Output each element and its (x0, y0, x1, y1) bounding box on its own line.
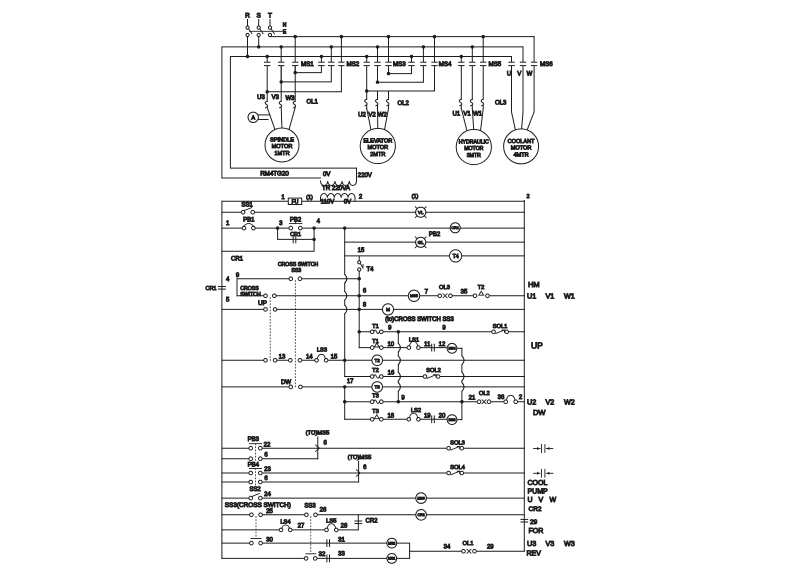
svg-text:10: 10 (387, 342, 394, 348)
svg-text:7: 7 (425, 289, 429, 295)
svg-text:T4: T4 (367, 267, 375, 273)
wire MS6 phase b drop (522, 47, 524, 62)
svg-text:OL3: OL3 (439, 285, 450, 291)
svg-text:2: 2 (527, 194, 530, 200)
svg-text:33: 33 (338, 552, 345, 558)
node 8 on 359 (358, 308, 361, 311)
node 4 lower (312, 238, 315, 241)
svg-text:28: 28 (341, 524, 348, 530)
wire row 25 (222, 514, 524, 516)
wire T4 stub (358, 256, 360, 261)
svg-text:19: 19 (424, 414, 431, 420)
svg-text:(TO)MS5: (TO)MS5 (306, 431, 330, 437)
svg-text:SOL2: SOL2 (426, 368, 441, 374)
svg-text:SS3: SS3 (304, 503, 316, 509)
wire right rail (523, 201, 525, 552)
pushbutton PB3 lower (249, 457, 262, 461)
svg-text:W2: W2 (378, 113, 388, 119)
svg-text:MS2: MS2 (388, 541, 395, 545)
svg-text:RM4TG20: RM4TG20 (260, 171, 289, 178)
wire phase lead-in (247, 20, 249, 26)
svg-text:ELEVATOR: ELEVATOR (363, 139, 392, 145)
node 9 on 359 (358, 277, 361, 280)
node MS2 c on L1 (340, 35, 343, 38)
node MS1 c on L1 (294, 35, 297, 38)
svg-text:R: R (245, 13, 250, 20)
svg-text:COOLANT: COOLANT (508, 139, 536, 145)
switch SS2 (249, 494, 262, 500)
overload OL2 element (365, 91, 371, 130)
linkage PB3 (255, 444, 257, 462)
wire MS coils join (397, 543, 410, 558)
svg-text:21: 21 (469, 396, 476, 402)
motor 1MTR spindle (265, 128, 299, 162)
svg-text:REV: REV (527, 550, 542, 557)
svg-text:PB2: PB2 (429, 232, 441, 238)
svg-text:1MTR: 1MTR (274, 151, 289, 157)
svg-text:SWITCH: SWITCH (240, 292, 261, 298)
switch 14 pair (289, 359, 302, 363)
timer coil T4 (450, 250, 462, 262)
svg-text:6: 6 (264, 476, 268, 482)
contactor MS6 contact a (509, 62, 514, 65)
contactor coil MS2 (387, 538, 397, 548)
wire coolant lead (512, 67, 516, 131)
svg-text:SPINDLE: SPINDLE (270, 138, 294, 144)
contactor coil MS3 (447, 415, 457, 425)
contactor MS3 contact b (375, 62, 380, 65)
wire row1 (222, 211, 524, 213)
svg-text:PB3: PB3 (248, 437, 260, 443)
timer coil T2 (372, 355, 383, 366)
wire S drop to L2 (258, 37, 260, 47)
wire GL row (345, 241, 525, 243)
node 21 bus (460, 400, 463, 403)
wire MS1 phase a drop (266, 57, 268, 62)
wire TO MS5 stub upper (317, 437, 319, 459)
svg-text:CR1: CR1 (205, 286, 216, 292)
switch mechanical link (250, 30, 285, 32)
svg-text:T3: T3 (372, 409, 379, 415)
contact 33 (327, 555, 330, 562)
contactor MS3 contact c (386, 62, 391, 65)
junction kink lower (356, 470, 360, 476)
cross switch SS3 contact 26 (305, 513, 318, 517)
node MS5 c on L1 (482, 35, 485, 38)
svg-text:PUMP: PUMP (528, 489, 549, 496)
contactor MS3 contact a (364, 62, 369, 65)
svg-text:CR1: CR1 (231, 256, 244, 262)
pilot light GL (415, 237, 426, 248)
overload OL2 element (375, 91, 377, 130)
svg-text:GL: GL (418, 240, 425, 245)
svg-text:MS1: MS1 (301, 61, 314, 68)
node 9 bus top (397, 330, 400, 333)
svg-text:V1: V1 (546, 292, 555, 301)
node spindle link3 (266, 90, 269, 93)
contactor MS1 contact c (293, 62, 298, 65)
svg-text:29: 29 (487, 545, 494, 551)
svg-text:6: 6 (324, 440, 328, 446)
wire bus L1 (270, 36, 534, 38)
node 4 (312, 226, 315, 229)
solenoid contact SOL3 (447, 446, 464, 450)
wire row 6c (222, 481, 359, 483)
svg-text:W1: W1 (473, 112, 483, 118)
wire ammeter top lead (258, 114, 269, 116)
wire MS3 to bus (457, 419, 462, 421)
limit switch LS5 (325, 524, 338, 532)
wire DW row (222, 386, 524, 388)
svg-text:12: 12 (439, 342, 446, 348)
node MS4 a on L3 (410, 55, 413, 58)
svg-text:110V: 110V (321, 200, 335, 206)
svg-text:16: 16 (388, 370, 395, 376)
wire row T3 NO (345, 401, 525, 403)
overload OL3 element (481, 67, 484, 132)
svg-text:W1: W1 (564, 292, 575, 301)
wire row 32 (222, 557, 387, 559)
svg-text:FOR: FOR (529, 528, 544, 535)
limit switch LS2 (407, 413, 420, 421)
overload contact OL3 (438, 294, 452, 298)
svg-text:M: M (386, 307, 390, 312)
relay contact CR2 in right rail (521, 519, 528, 522)
timed contact T3 delayed (370, 415, 383, 421)
timer coil T3 (372, 382, 383, 393)
wire MS1a-MS2c link (267, 67, 341, 92)
svg-text:3: 3 (279, 221, 283, 227)
svg-text:HM: HM (528, 280, 540, 289)
wire CR1 branch (278, 228, 315, 239)
svg-text:V1: V1 (463, 112, 471, 118)
svg-text:V: V (517, 72, 521, 78)
svg-text:24: 24 (264, 492, 271, 498)
relay contact CR1 in left rail (219, 287, 226, 290)
wire row8 (359, 308, 524, 310)
pushbutton PB1 (242, 226, 255, 230)
svg-text:N: N (283, 23, 287, 29)
node 17 (343, 385, 346, 388)
wire row 30 (222, 542, 387, 544)
overload OL1 element (289, 67, 296, 130)
svg-text:CR1: CR1 (451, 226, 459, 230)
wire MS1 phase b drop (280, 47, 282, 62)
timed contact T2 NO (370, 375, 383, 379)
svg-text:MS5: MS5 (489, 61, 502, 68)
svg-text:SOL1: SOL1 (493, 324, 508, 330)
overload OL2 element (385, 91, 389, 130)
node MS2 b on L2 (330, 45, 333, 48)
svg-text:OL2: OL2 (398, 101, 410, 107)
svg-text:27: 27 (298, 524, 305, 530)
wire row6 (359, 295, 524, 297)
motor 4MTR coolant (504, 129, 539, 164)
svg-text:13: 13 (279, 354, 286, 360)
svg-text:MS4: MS4 (439, 61, 452, 68)
svg-text:MS1: MS1 (388, 557, 395, 561)
svg-text:35: 35 (461, 289, 468, 295)
svg-text:U: U (507, 72, 511, 78)
relay coil CR2 (416, 510, 427, 521)
cross switch SS3 lower contacts (264, 294, 276, 298)
relay coil CR1 (450, 223, 460, 233)
svg-text:30: 30 (266, 537, 273, 543)
motor 3MTR hydraulic (456, 129, 491, 164)
node MS5 a on L3 (460, 55, 463, 58)
contactor coil MS4 (447, 343, 457, 353)
contactor MS4 contact b (421, 62, 426, 65)
wire MS2 phase b drop (330, 47, 332, 62)
linkage SS3-UP-13 (269, 298, 271, 363)
svg-text:T2: T2 (478, 285, 485, 291)
svg-text:MS6: MS6 (417, 496, 424, 500)
linkage SS3 right lower (310, 517, 312, 554)
svg-text:V2: V2 (368, 113, 376, 119)
contactor MS6 contact b (520, 62, 525, 65)
wire bus 344.7 (345, 228, 347, 376)
wire UP row (222, 308, 359, 310)
node MS4 b on L2 (422, 45, 425, 48)
svg-text:V2: V2 (546, 398, 555, 407)
wire row 22 (222, 447, 524, 449)
node 3 (276, 226, 279, 229)
wire T4 row (345, 255, 525, 257)
svg-text:W: W (527, 72, 533, 78)
contactor MS2 contact b (329, 62, 334, 65)
svg-text:A: A (251, 115, 255, 121)
linkage PB4 (255, 469, 257, 487)
linkage bar 32 (306, 553, 316, 555)
svg-text:CR2: CR2 (417, 513, 424, 517)
node MS1 b on L2 (280, 45, 283, 48)
svg-text:TR 220VA: TR 220VA (322, 185, 351, 192)
contactor MS5 contact c (481, 62, 486, 65)
svg-text:6: 6 (264, 453, 268, 459)
timed contact T1 delayed (370, 343, 383, 349)
overload OL3 element (459, 67, 467, 132)
motor 2MTR elevator (360, 128, 395, 163)
svg-text:SS3: SS3 (291, 268, 301, 274)
svg-text:1: 1 (281, 195, 285, 201)
pilot light VL (415, 207, 426, 218)
node row2 at 344.7 (343, 226, 346, 229)
svg-text:9: 9 (442, 326, 446, 332)
svg-text:6: 6 (363, 289, 367, 295)
svg-text:2MTR: 2MTR (370, 152, 385, 158)
motor timer M (382, 304, 393, 315)
wire MS4 phase c drop (434, 37, 436, 62)
svg-text:4: 4 (317, 219, 321, 225)
wire MS3c-MS4a link (389, 67, 412, 74)
pushbutton PB4 lower (249, 480, 262, 484)
pushbutton PB1 actuator (243, 223, 254, 227)
svg-text:S: S (257, 13, 262, 20)
wire row 6b (222, 458, 318, 460)
contactor MS4 contact a (409, 62, 414, 65)
wire secondary left stub (320, 198, 322, 201)
svg-text:T4: T4 (453, 254, 459, 260)
svg-text:W3: W3 (286, 96, 296, 102)
pushbutton PB3 upper (249, 446, 262, 450)
svg-text:17: 17 (347, 379, 354, 385)
fuse FU (288, 198, 301, 205)
svg-text:11: 11 (424, 342, 431, 348)
wire row T1 timed (359, 347, 447, 349)
wire row 27 (222, 529, 358, 531)
svg-text:20: 20 (439, 414, 446, 420)
node T3 row (343, 400, 346, 403)
wire MS3a-MS4c link (367, 67, 435, 92)
node 15 bus (343, 359, 346, 362)
svg-text:9: 9 (388, 326, 392, 332)
wire secondary right stub (354, 198, 356, 201)
wire bus 344.7 lower (344, 387, 346, 419)
svg-text:32: 32 (319, 552, 326, 558)
svg-text:18: 18 (387, 414, 394, 420)
transformer TR primary winding (321, 181, 357, 185)
svg-text:15: 15 (358, 248, 365, 254)
timed contact T2 NC (473, 291, 489, 297)
node MS3 b on L2 (376, 45, 379, 48)
contactor MS1 contact b (279, 62, 284, 65)
svg-text:LS4: LS4 (280, 519, 291, 525)
svg-text:4MTR: 4MTR (513, 152, 528, 158)
wire MS6 phase a drop (511, 57, 513, 62)
wire row9 (237, 278, 359, 280)
svg-text:8: 8 (363, 303, 367, 309)
linkage SS3 left lower (255, 517, 257, 539)
pushbutton PB4 upper (249, 471, 262, 475)
svg-text:T1: T1 (372, 324, 379, 330)
switch DW (289, 385, 302, 389)
wire row T1 (359, 331, 524, 333)
linkage bar 30 (251, 538, 261, 540)
wire MS6 phase c drop (533, 37, 535, 62)
node MS2 a on L3 (320, 55, 323, 58)
svg-text:0V: 0V (323, 172, 330, 178)
limit switch LS1 (407, 341, 420, 349)
wire MS2 phase a drop (320, 57, 322, 62)
svg-text:VL: VL (418, 210, 424, 215)
contactor MS2 contact c (339, 62, 344, 65)
svg-text:U3: U3 (257, 95, 265, 101)
node 9 bus bottom (397, 400, 400, 403)
svg-text:LS3: LS3 (317, 348, 327, 354)
node R on L3 (246, 55, 249, 58)
svg-text:COOL: COOL (528, 480, 548, 487)
svg-text:MOTOR: MOTOR (511, 146, 532, 152)
svg-text:(to)CROSS SWITCH SS3: (to)CROSS SWITCH SS3 (385, 317, 454, 323)
svg-text:OL1: OL1 (307, 100, 319, 106)
svg-text:LS1: LS1 (409, 338, 419, 344)
wire MS4 phase b drop (422, 47, 424, 62)
svg-text:U2: U2 (358, 113, 366, 119)
svg-text:MOTOR: MOTOR (367, 145, 388, 151)
overload OL1 element (265, 92, 275, 130)
svg-text:E: E (283, 30, 287, 36)
svg-text:UP: UP (258, 300, 267, 307)
switch SS1 (241, 208, 254, 214)
contactor MS2 contact a (319, 62, 324, 65)
overload OL1 element (279, 67, 282, 130)
wire row 23 (222, 472, 524, 474)
timed contact T3 NO (370, 400, 383, 404)
wire coolant lead (527, 67, 534, 131)
wire node4 down (222, 228, 314, 251)
svg-text:T2: T2 (372, 368, 379, 374)
wire MS3 phase b drop (377, 47, 379, 62)
svg-text:V3: V3 (546, 539, 555, 548)
contactor coil MS1 (387, 554, 397, 564)
wire left rail (221, 201, 223, 558)
svg-text:MS6: MS6 (540, 61, 553, 68)
wire phase lead-in (269, 20, 271, 26)
svg-text:CR1: CR1 (290, 232, 301, 238)
wire bus 461.9 (462, 348, 464, 419)
contact 31 (327, 540, 330, 547)
pushbutton PB2 (289, 226, 302, 230)
wire row SS3 lower (237, 295, 359, 297)
svg-text:9: 9 (236, 273, 240, 279)
contact 11-12 (432, 344, 435, 351)
svg-text:PB4: PB4 (248, 462, 260, 468)
svg-text:DW: DW (533, 408, 546, 417)
svg-text:CR2: CR2 (366, 519, 379, 525)
node spindle link1 (294, 71, 297, 74)
svg-text:W2: W2 (564, 398, 575, 407)
contactor MS4 contact c (432, 62, 437, 65)
wire bus 359.2 (358, 271, 360, 348)
contact 36 (504, 395, 518, 403)
node MS1 a on L3 (266, 55, 269, 58)
svg-text:0V: 0V (344, 200, 351, 206)
svg-text:MS5: MS5 (410, 294, 418, 298)
wire MS1 phase c drop (294, 37, 296, 62)
timed switch T4 (358, 261, 363, 271)
cross switch contact 30 (250, 541, 263, 545)
wire phase lead-in (258, 20, 260, 26)
contact 19-20 (432, 416, 435, 423)
svg-text:U2: U2 (527, 398, 536, 407)
wire bus L3 with left feeder (230, 57, 511, 169)
timed contact T1 NO (370, 330, 383, 334)
wire row2 (222, 227, 524, 229)
wire MS3 phase a drop (366, 57, 368, 62)
wire row 13 (222, 359, 524, 361)
svg-text:OL2: OL2 (479, 391, 490, 397)
contactor MS5 contact b (470, 62, 475, 65)
wire cross box vertical (236, 279, 238, 296)
connector symbol row23 (534, 469, 553, 477)
ammeter A (248, 112, 258, 122)
wire TO MS5 stub lower (358, 462, 360, 483)
svg-text:UP: UP (531, 341, 543, 351)
svg-text:SOL3: SOL3 (450, 440, 465, 446)
svg-text:(1): (1) (412, 194, 419, 200)
wire MS5 phase b drop (471, 47, 473, 62)
svg-text:FU: FU (292, 199, 299, 205)
svg-text:15: 15 (331, 354, 338, 360)
svg-text:T3: T3 (372, 394, 379, 400)
svg-text:SOL4: SOL4 (450, 465, 466, 471)
wire bus L2 with left feeder (222, 47, 523, 178)
svg-text:(TO)MS5: (TO)MS5 (348, 455, 372, 461)
svg-text:(1): (1) (306, 195, 313, 201)
node 6 on 359 (358, 294, 361, 297)
node MS5 b on L2 (471, 45, 474, 48)
node MS3 c on L1 (387, 35, 390, 38)
